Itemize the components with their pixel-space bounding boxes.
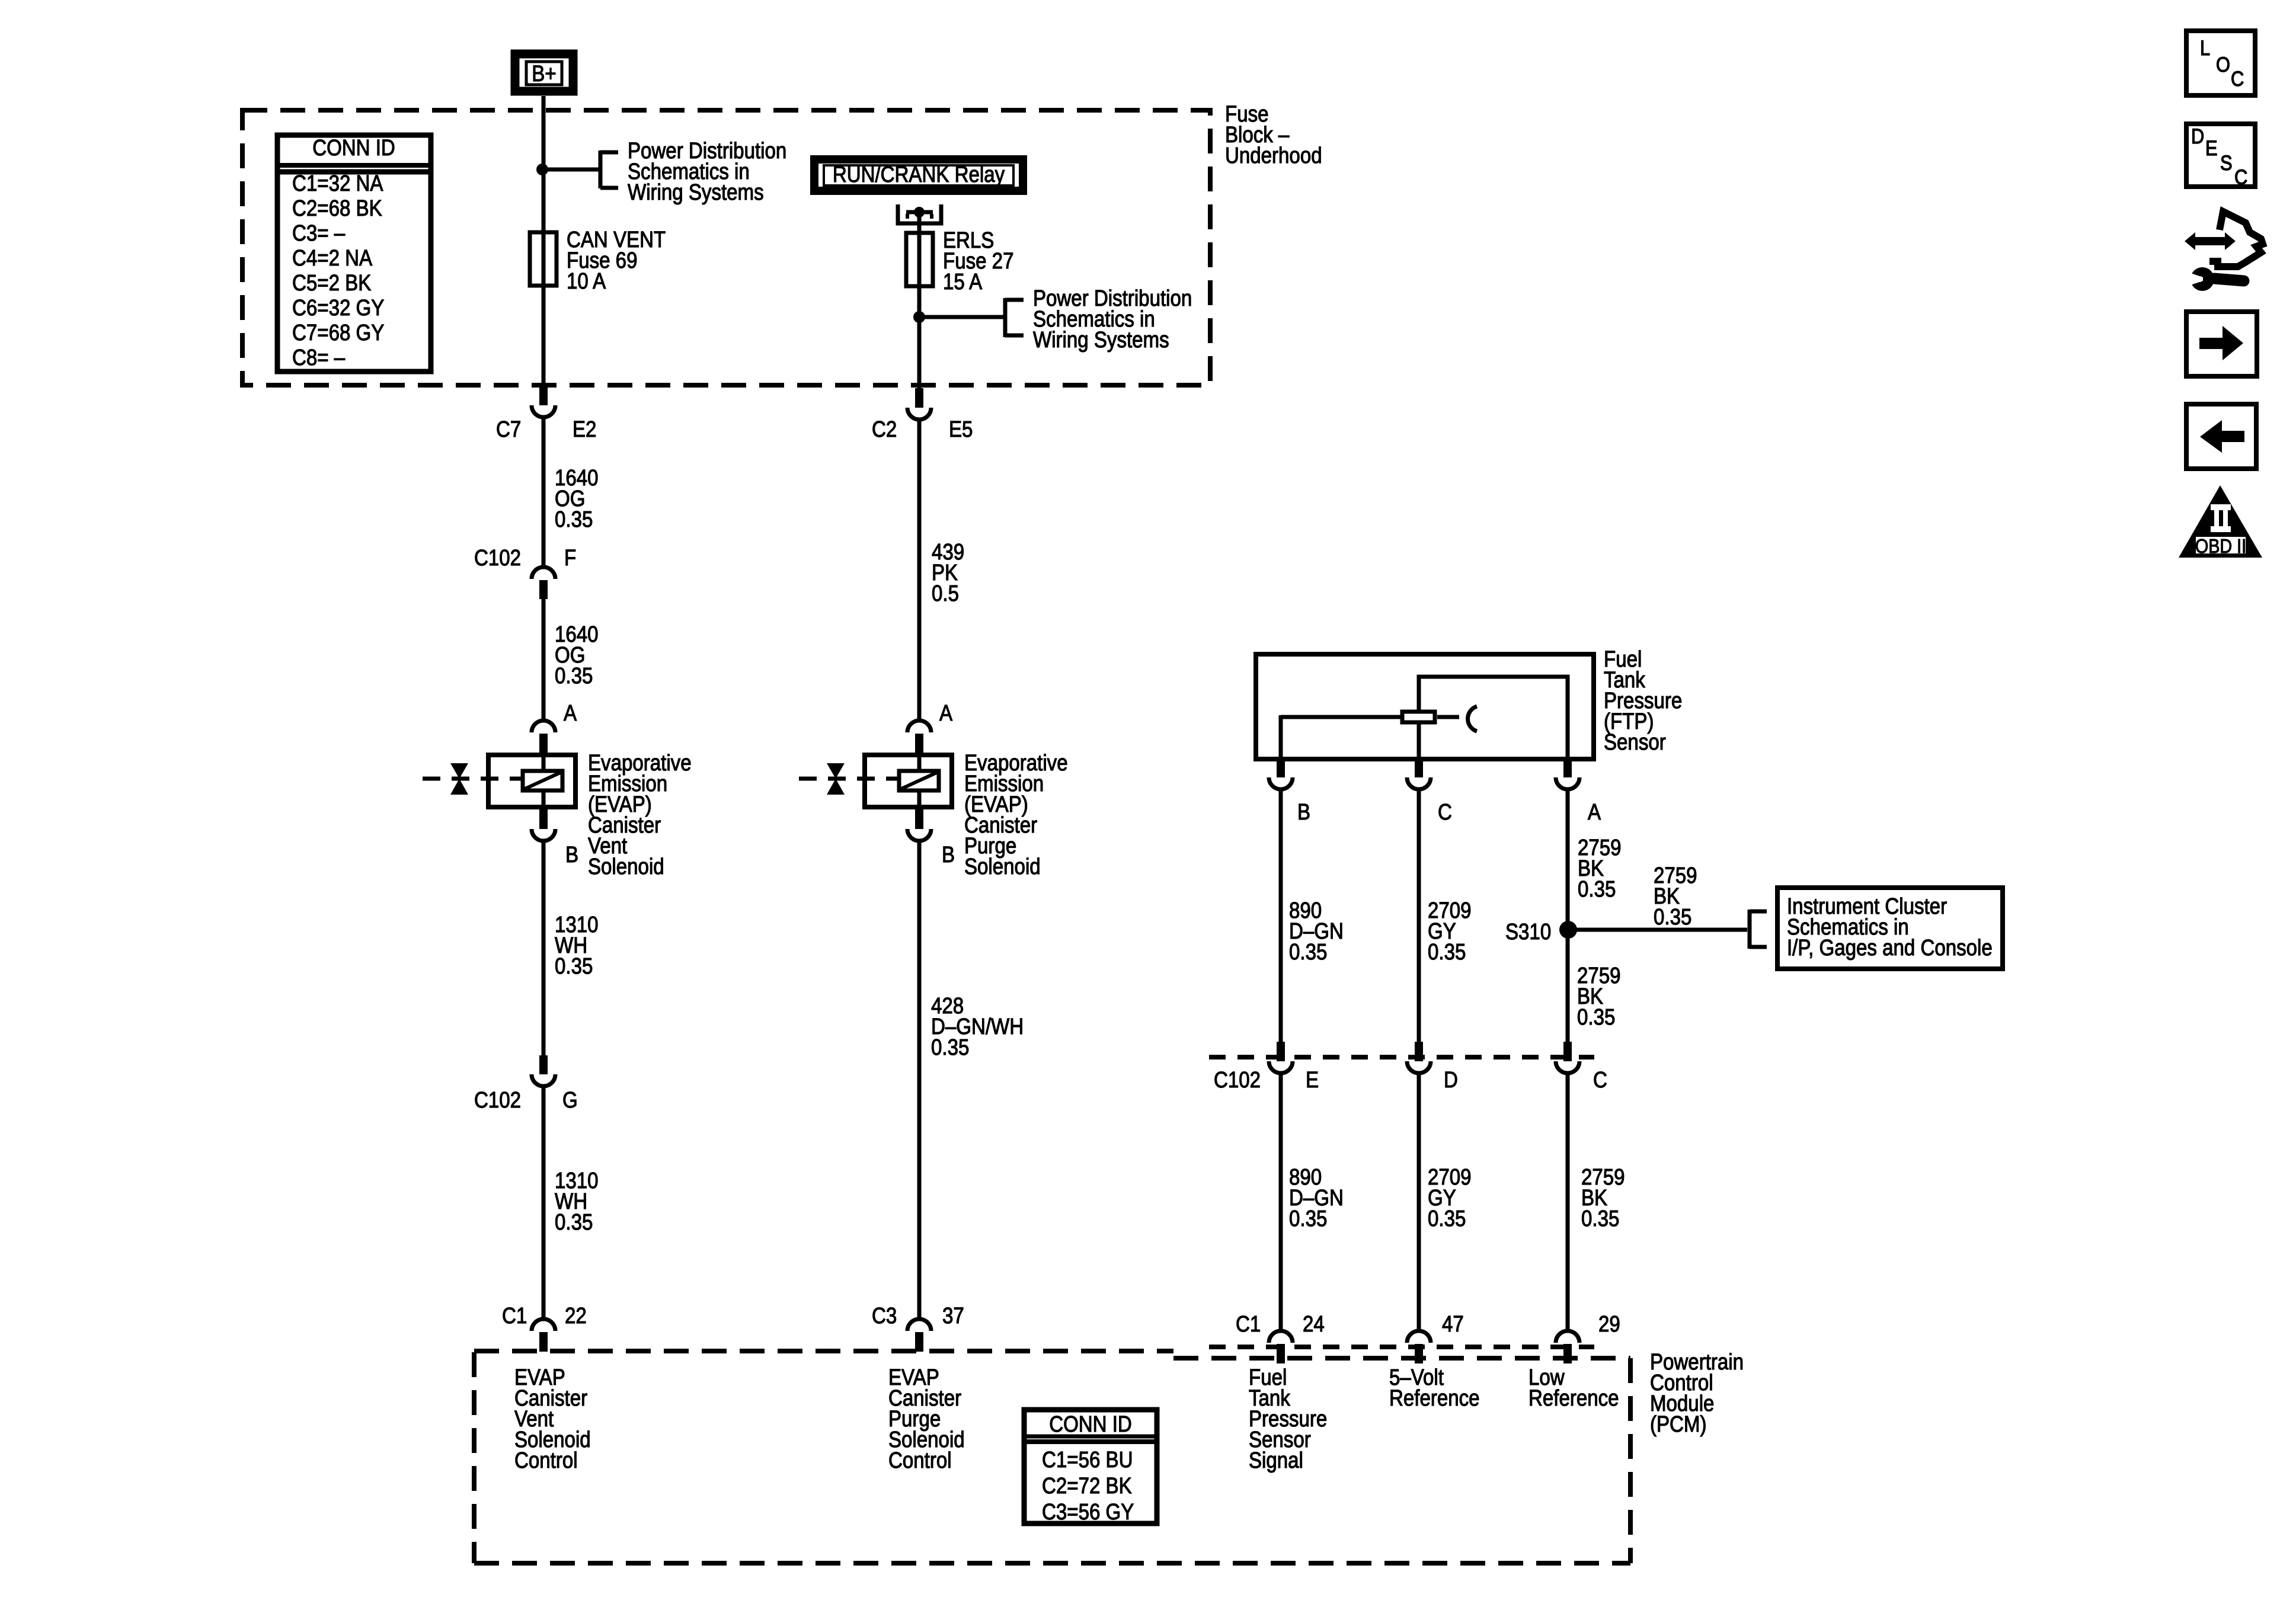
relay output terminal symbol <box>898 204 941 223</box>
DESC icon letters <box>2191 126 2204 147</box>
forward arrow icon <box>2186 312 2257 376</box>
label B+ <box>503 64 585 85</box>
LOC icon letters <box>2200 38 2210 59</box>
label wire 1640 OG lower <box>555 625 599 687</box>
fuse CAN VENT 69 body <box>530 232 557 286</box>
connector C102 pin D <box>1415 1042 1423 1061</box>
PCM connector C1 row (dashed) <box>1209 1345 1594 1349</box>
wire 439 PK 0.5 <box>917 418 922 719</box>
power feed B+ box <box>515 54 573 91</box>
label wire 1310 WH upper <box>555 915 599 977</box>
wire 1310 WH 0.35 (upper) <box>542 840 546 1055</box>
EVAP vent solenoid coil <box>523 771 562 790</box>
EVAP purge solenoid valve symbol <box>827 763 845 779</box>
label connector C102 / F <box>474 548 521 569</box>
wire branch to power distribution reference 2 <box>919 315 1005 319</box>
label EVAP canister vent solenoid control <box>514 1368 591 1471</box>
label fuel tank pressure sensor signal <box>1249 1368 1327 1471</box>
connector C7 pin E2 (socket) <box>532 405 555 417</box>
label wire 1640 OG upper <box>555 468 599 530</box>
PCM connector C1 pin 22 <box>532 1319 555 1331</box>
wire 890 D-GN 0.35 (lower) <box>1279 1072 1283 1332</box>
connector C2 pin E5 (socket) <box>907 408 931 420</box>
label RUN/CRANK relay <box>764 165 1073 185</box>
label PCM C1 row pins <box>1236 1314 1261 1335</box>
label EVAP canister purge solenoid control <box>888 1368 965 1471</box>
label connector C102 / G <box>474 1090 521 1111</box>
back arrow icon <box>2186 404 2256 469</box>
CONN ID table (PCM) <box>1024 1410 1157 1523</box>
label instrument cluster reference <box>1787 897 1993 959</box>
FTP sensor wiper contact <box>1468 706 1477 731</box>
FTP sensor internal circuit <box>1419 677 1568 759</box>
OBD II label <box>2179 536 2262 556</box>
powertrain control module box (dashed) <box>474 1349 1173 1353</box>
FTP sensor pin B connector <box>1277 758 1285 777</box>
connector C102 pin G (pin) <box>539 1055 548 1074</box>
label solenoid 1 pin A <box>564 703 577 724</box>
label wire 2709 GY lower <box>1428 1167 1472 1230</box>
FTP sensor pin C connector <box>1415 758 1423 777</box>
connector C2 pin E5 (pin) <box>915 388 923 408</box>
PCM connector C1 pin 47 <box>1407 1331 1431 1343</box>
label EVAP canister purge solenoid <box>964 753 1068 878</box>
label connector C102 row <box>1214 1070 1261 1091</box>
label fuse block underhood <box>1225 104 1322 167</box>
label wire 1310 WH lower <box>555 1171 599 1233</box>
label PCM C1 22 <box>502 1306 527 1327</box>
label connector C7 / E2 <box>496 420 521 440</box>
EVAP purge solenoid coil <box>899 771 939 790</box>
EVAP canister vent solenoid box <box>488 755 575 807</box>
hotlink double arrow <box>2185 232 2236 250</box>
label solenoid 1 pin B <box>565 845 578 866</box>
label connector C2 / E5 <box>872 420 897 440</box>
label solenoid 2 pin A <box>939 703 952 724</box>
label power distribution reference 2 <box>1033 289 1192 351</box>
label fuel tank pressure sensor <box>1604 649 1682 753</box>
fuse ERLS 27 body <box>906 233 933 286</box>
wire relay to fuse 27 to C2 <box>917 215 922 390</box>
splice S310 <box>1559 921 1577 939</box>
EVAP vent solenoid internal wire <box>542 753 546 809</box>
EVAP canister purge solenoid box <box>865 755 952 807</box>
LOC icon box <box>2186 31 2255 95</box>
label powertrain control module <box>1650 1352 1744 1435</box>
hotlink wrench <box>2191 267 2214 291</box>
EVAP vent solenoid pin B connector <box>539 809 548 829</box>
junction node (B+ branch) <box>536 164 548 175</box>
PCM connector C3 pin 37 <box>907 1319 931 1331</box>
connector C102 pin C <box>1563 1042 1572 1061</box>
reference bracket (instrument cluster) <box>1748 910 1752 949</box>
junction node (ERLS branch) <box>913 311 925 323</box>
label 5-volt reference <box>1389 1368 1480 1409</box>
label solenoid 2 pin B <box>942 845 955 866</box>
connector C102 pin G (socket) <box>532 1074 555 1086</box>
CONN ID rows (PCM) <box>1042 1447 1134 1525</box>
connector C102 pin F (socket) <box>532 567 555 579</box>
wire 1640 OG 0.35 (lower) <box>542 599 546 719</box>
label wire 2759 BK to cluster <box>1654 866 1697 928</box>
connector C102 row (dashed) <box>1209 1055 1594 1060</box>
label wire 2759 BK lower <box>1581 1167 1625 1230</box>
wire 428 D-GN/WH 0.35 <box>917 840 922 1320</box>
wire B+ to fuse block / fuse 69 <box>542 96 546 386</box>
EVAP vent solenoid valve symbol <box>450 763 468 779</box>
wire 1640 OG 0.35 (upper) <box>542 416 546 566</box>
label EVAP canister vent solenoid <box>588 753 692 878</box>
label PCM C3 37 <box>872 1306 897 1327</box>
hotlink vehicle outline <box>2209 212 2263 267</box>
label CONN ID header (PCM) <box>1013 1414 1168 1435</box>
wire 2709 GY 0.35 (upper) <box>1417 788 1421 1043</box>
label wire 2709 GY upper <box>1428 901 1472 963</box>
wire 890 D-GN 0.35 (upper) <box>1279 788 1283 1043</box>
EVAP purge solenoid valve link (dashed) <box>799 777 900 781</box>
CONN ID rows (fuse block) <box>292 171 384 370</box>
label splice S310 <box>1505 922 1551 943</box>
label power distribution reference 1 <box>628 141 786 203</box>
label ERLS fuse 27 <box>943 231 1013 293</box>
wire branch to power distribution reference <box>542 168 600 172</box>
PCM connector C1 pin 24 <box>1269 1331 1293 1343</box>
EVAP purge solenoid internal wire <box>917 753 922 809</box>
EVAP purge solenoid pin B connector <box>915 809 923 829</box>
reference bracket (power distribution 1) <box>599 151 603 188</box>
wire 1310 WH 0.35 (lower) <box>542 1085 546 1320</box>
fuse block - underhood (dashed enclosure) <box>242 110 1210 385</box>
EVAP vent solenoid pin A connector <box>532 721 555 732</box>
label wire 2759 BK below splice <box>1577 966 1621 1028</box>
label wire 890 D-GN lower <box>1289 1167 1344 1230</box>
FTP sensor resistor <box>1402 712 1435 722</box>
label low reference <box>1528 1368 1619 1409</box>
label wire 439 PK <box>932 542 964 604</box>
FTP sensor pin A connector <box>1563 758 1572 777</box>
PCM connector C1 pin 29 <box>1556 1331 1579 1343</box>
wire 2759 BK 0.35 to instrument cluster <box>1568 928 1747 932</box>
OBD II triangle icon <box>2179 485 2262 558</box>
RUN/CRANK relay box <box>814 159 1023 191</box>
EVAP vent solenoid valve link (dashed) <box>423 777 524 781</box>
connector C7 pin E2 (pin) <box>539 386 548 405</box>
reference bracket (power distribution 2) <box>1003 298 1008 337</box>
fuel tank pressure sensor box <box>1256 654 1594 759</box>
label wire 2759 BK upper <box>1578 838 1622 900</box>
EVAP purge solenoid pin A connector <box>907 721 931 732</box>
DESC icon box <box>2186 124 2255 187</box>
wire 2759 BK 0.35 (lower) <box>1566 1072 1570 1332</box>
connector C102 pin E <box>1277 1042 1285 1061</box>
CONN ID table (fuse block) <box>277 135 431 372</box>
label wire 428 D-GN/WH <box>931 996 1024 1058</box>
label wire 890 D-GN upper <box>1289 901 1344 963</box>
instrument cluster schematics box <box>1777 888 2003 969</box>
label CAN VENT fuse 69 <box>567 230 666 292</box>
label CONN ID header (fuse block) <box>277 138 431 159</box>
wire 2759 BK 0.35 (upper) <box>1566 788 1570 1043</box>
label FTP pins B C A <box>1297 802 1310 823</box>
connector C102 pin F (pin) <box>539 580 548 599</box>
wire 2709 GY 0.35 (lower) <box>1417 1072 1421 1332</box>
